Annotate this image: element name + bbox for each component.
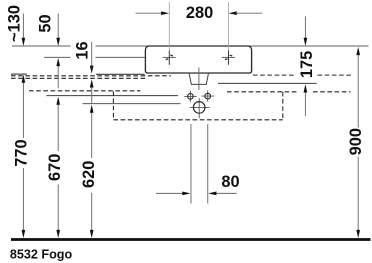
svg-text:900: 900 xyxy=(347,128,365,155)
svg-text:50: 50 xyxy=(36,14,54,32)
svg-text:80: 80 xyxy=(221,173,239,191)
svg-text:8532 Fogo: 8532 Fogo xyxy=(10,248,73,262)
svg-text:770: 770 xyxy=(12,139,30,166)
svg-text:175: 175 xyxy=(298,51,316,78)
svg-text:620: 620 xyxy=(80,161,98,188)
svg-text:16: 16 xyxy=(73,41,91,59)
svg-text:670: 670 xyxy=(46,154,64,181)
svg-text:~130: ~130 xyxy=(5,5,23,42)
svg-text:280: 280 xyxy=(186,4,213,22)
